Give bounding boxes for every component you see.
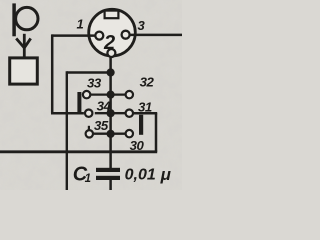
svg-text:33: 33 [87,76,102,91]
amplifier box [10,58,38,84]
svg-text:1: 1 [85,173,91,185]
wire long vertical drop [66,71,68,190]
wire from pin 1 to left frame [52,34,95,37]
svg-text:3: 3 [138,18,146,33]
wire capacitor lower lead [109,180,112,190]
svg-text:0,01: 0,01 [125,167,156,184]
DIN socket U1 outline [89,9,136,56]
pin 2 [107,49,115,57]
svg-text:34: 34 [97,98,112,113]
keying notch of DIN socket [105,11,119,19]
wire left frame vertical [51,34,54,113]
wire ground bus [0,150,157,153]
svg-text:31: 31 [138,100,152,115]
arrow into amplifier box [16,34,31,58]
wire left frame to contact 34 [51,112,84,115]
reference label C1 [73,164,91,186]
svg-text:32: 32 [140,74,155,89]
wire row 34-31 [95,112,126,114]
wire row 35-30 [94,133,126,135]
contact 32 [126,91,133,98]
node junction below pin 2 [107,68,115,76]
capacitor C1 plates [96,168,120,172]
switch bridge bar right (contacts 31-30) [139,115,143,135]
svg-text:2: 2 [103,32,115,54]
node row 35 junction [107,130,115,138]
wire right corner vertical [155,113,158,152]
wire pin 2 lead down [109,57,112,168]
contact 34 [85,110,92,117]
actuator tick above contact 35 [88,126,90,131]
wire from pin 3 to right edge [130,34,182,37]
contact 33 [83,91,90,98]
svg-text:1: 1 [77,16,84,31]
node row 34 junction [107,109,115,117]
switch bridge bar left (contacts 33-34) [77,92,81,114]
pin 3 [122,31,130,39]
svg-text:30: 30 [130,138,145,153]
node row 33 junction [107,91,115,99]
svg-text:35: 35 [94,118,109,133]
wire contact 31 to right corner [133,112,157,115]
contact 31 [126,110,133,117]
contact 35 [86,130,93,137]
tonearm bar of pictogram [12,3,16,36]
wire junction to left drop [67,71,111,73]
turntable disc pictogram [16,7,38,29]
wire row 33-32 [91,93,126,95]
contact 30 [126,130,133,137]
pin 1 [95,32,103,40]
svg-text:μ: μ [160,165,172,184]
